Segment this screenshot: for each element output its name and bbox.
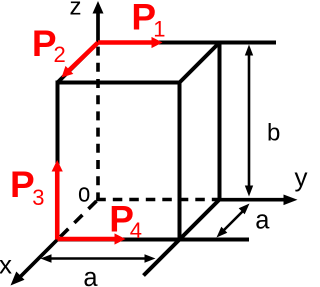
svg-text:a: a [255,207,270,235]
box bottom front edge extension line [180,238,250,242]
label z [70,0,82,21]
svg-text:P: P [10,164,35,205]
force P3 arrow [52,160,63,240]
force P1 arrow [98,37,163,48]
svg-text:2: 2 [54,42,66,67]
svg-text:4: 4 [130,218,142,243]
svg-text:1: 1 [153,17,165,42]
label P3 [10,164,45,210]
hidden edge: back-left vertical (dashed) [96,47,100,201]
y axis [220,195,298,206]
box back-right vertical edge [218,43,222,200]
force P2 arrow [62,43,99,78]
label a (oblique) [255,207,270,235]
label P1 [131,0,165,42]
dimension a bottom line [41,254,156,262]
label P4 [109,199,142,243]
box bottom-right oblique edge extended [144,200,220,276]
z axis [93,1,104,43]
box top back edge with extension line [98,41,276,45]
label y [295,162,308,192]
svg-text:o: o [78,179,90,208]
svg-text:3: 3 [32,185,44,210]
svg-text:x: x [0,250,12,280]
svg-text:z: z [70,0,82,21]
svg-text:b: b [267,120,280,147]
box top-left oblique edge (under P2) [58,43,99,83]
box front face [58,83,180,240]
svg-text:y: y [295,162,308,192]
hidden edge: back bottom (dashed) [96,198,219,202]
hidden edge: origin to front-bottom-left (dashed) [58,201,97,240]
label o (origin) [78,179,90,208]
svg-text:a: a [83,264,98,287]
label b [267,120,280,147]
label a (bottom) [83,264,98,287]
box top-right oblique edge [180,43,220,83]
dimension b line [245,45,253,197]
label x [0,250,12,280]
dimension a oblique line [217,204,250,238]
x axis [11,240,58,286]
force P4 arrow [58,233,126,244]
label P2 [32,23,66,67]
